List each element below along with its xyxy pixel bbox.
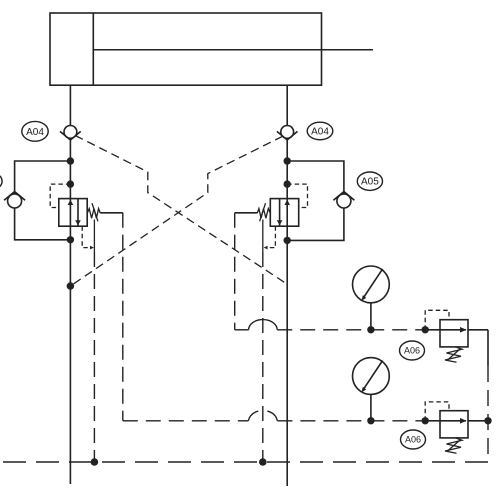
node dots on tank bus xyxy=(91,458,267,466)
svg-text:A05: A05 xyxy=(361,177,379,188)
V2 spring xyxy=(257,203,270,221)
cylinder body xyxy=(50,13,322,85)
wire V1 spring output xyxy=(100,212,123,214)
drain line from V1 spring (long dash vertical) xyxy=(122,213,124,421)
pilot bus line 1 (y=329.8, dashed with hop) xyxy=(235,329,426,331)
V1 drain to tank (long dash vertical) xyxy=(93,252,95,462)
tank return bus (bottom, long dash) xyxy=(0,461,488,463)
relief return header (right vertical) xyxy=(487,330,489,366)
V2 drain to tank (long dash vertical) xyxy=(262,252,264,462)
wire V2 spring output xyxy=(235,212,258,214)
cylinder piston xyxy=(92,13,94,85)
cross pilot line D2 (right port to left line, dashed) xyxy=(70,136,282,286)
label A06 lower xyxy=(401,430,426,449)
wire R1 outlet xyxy=(468,329,488,331)
cylinder rod xyxy=(93,49,373,51)
R2 flow arrowhead xyxy=(460,418,467,424)
V1 down-flow path xyxy=(77,199,79,227)
node junction dots right main xyxy=(284,157,291,244)
V2 pilot line (dashed) xyxy=(287,184,307,207)
node dots on line1 xyxy=(367,326,429,333)
wire line2 into relief R2 xyxy=(425,420,440,422)
check valve right A05 xyxy=(333,192,354,208)
V2 drain arrowhead xyxy=(264,246,268,250)
R2 pilot (dashed) xyxy=(425,402,449,421)
svg-text:A04: A04 xyxy=(311,127,329,138)
node dots on line2 xyxy=(367,417,492,424)
relief valve R2 body xyxy=(440,411,468,438)
svg-text:A06: A06 xyxy=(404,346,420,356)
V2 down-flow arrow xyxy=(277,220,283,225)
V2 up-flow arrow xyxy=(284,200,290,205)
label A05 left (clipped at edge) xyxy=(0,172,2,190)
wire right check-valve branch lower xyxy=(287,208,344,240)
V1 spring drain stub xyxy=(93,220,95,253)
V1 drain pilot (dashed) xyxy=(82,226,90,247)
line 1 hop over drain xyxy=(249,320,278,330)
port check ball A04 left xyxy=(60,125,81,140)
svg-text:A06: A06 xyxy=(405,435,421,445)
V1 up-flow arrow xyxy=(68,200,74,205)
drain line from V2 spring (long dash vertical) xyxy=(234,213,236,330)
R1 flow line xyxy=(440,329,466,331)
counterbalance valve V1 body xyxy=(59,199,87,227)
relief valve R1 body xyxy=(440,320,468,347)
R1 flow arrowhead xyxy=(460,327,467,333)
R2 flow line xyxy=(440,420,466,422)
V2 spring drain stub xyxy=(262,220,264,253)
V2 down-flow path xyxy=(279,199,281,227)
counterbalance valve V2 body xyxy=(270,199,298,227)
svg-text:A04: A04 xyxy=(26,127,44,138)
V1 drain arrowhead xyxy=(90,246,94,250)
V1 spring xyxy=(87,203,100,221)
V1 down-flow arrow xyxy=(75,220,81,225)
R2 spring xyxy=(445,438,462,453)
check valve left xyxy=(4,192,25,208)
cross pilot line D1 (left port to right line, dashed) xyxy=(75,136,287,285)
pressure gauge G1 xyxy=(353,266,390,330)
R1 pilot (dashed) xyxy=(425,310,449,330)
V2 drain pilot (dashed) xyxy=(267,226,276,247)
port check ball A04 right xyxy=(277,125,298,140)
label A04 right xyxy=(307,122,333,140)
R1 spring xyxy=(445,347,462,362)
V1 pilot line (dashed) xyxy=(50,184,70,207)
label A05 right xyxy=(357,172,382,190)
wire left check-valve branch xyxy=(15,161,71,194)
wire right main line xyxy=(286,140,288,486)
pilot bus line 2 (y=420.8, dashed with hop) xyxy=(123,420,425,422)
wire line1 into relief R1 xyxy=(425,329,440,331)
pressure gauge G2 xyxy=(353,358,390,421)
wire right check-valve branch xyxy=(287,161,344,194)
wire left main line xyxy=(69,140,71,484)
wire R2 outlet xyxy=(468,420,488,422)
node junction dots left main xyxy=(67,157,75,290)
line 2 hop over drain xyxy=(248,411,258,421)
wire left check-valve branch lower xyxy=(15,208,71,240)
label A06 upper xyxy=(400,341,425,360)
wire left cylinder port xyxy=(69,85,71,125)
wire right cylinder port xyxy=(286,85,288,125)
label A04 left xyxy=(22,121,48,141)
